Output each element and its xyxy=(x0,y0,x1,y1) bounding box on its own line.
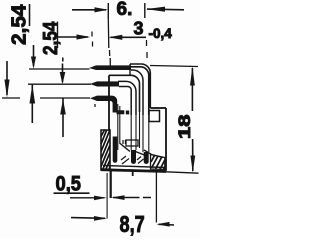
body top rear edge with rounded corner xyxy=(130,64,150,108)
dimension line for 2,54 #1 xyxy=(29,4,31,26)
body rear tower step xyxy=(129,64,131,75)
arrow down at x33.5 (to pin1 line) xyxy=(33,45,35,66)
right bottom hatched block xyxy=(151,155,165,170)
3 right arrow xyxy=(111,36,147,38)
body step at right xyxy=(150,107,166,109)
body front top edge xyxy=(109,75,140,112)
flange bottom thick strip xyxy=(101,170,166,172)
8,7 left arrow xyxy=(71,217,105,220)
thin extension left of leg xyxy=(106,173,108,219)
pin 1 solid bar with pointed tip xyxy=(89,65,131,70)
pin 3 solid bar with pointed tip xyxy=(90,96,110,101)
svg-text:2,54: 2,54 xyxy=(40,21,62,55)
front leg below flange (0,5 feature) xyxy=(110,169,112,198)
slope line to right hatched block xyxy=(144,150,163,158)
extension line y98 left segment xyxy=(2,97,20,99)
0,5 right arrow xyxy=(113,197,151,199)
arrow down at x7 (2,54 outer) xyxy=(6,61,8,95)
svg-text:3: 3 xyxy=(134,19,144,39)
6. left arrow xyxy=(72,9,106,11)
middle leg dark stub xyxy=(131,150,136,164)
pin 3 bend outline to front leg xyxy=(109,96,117,113)
pocket box in flange top xyxy=(126,140,138,146)
8,7 right arrow xyxy=(159,223,175,226)
extension continuation x145 down to body xyxy=(146,40,149,58)
extension line right x156.5 down xyxy=(155,173,157,223)
small notch box on step xyxy=(149,111,160,122)
18 dimension line upper with up arrow xyxy=(191,68,193,111)
hatch ticks under slope between legs xyxy=(121,156,144,164)
18 bottom extension line xyxy=(166,172,199,173)
svg-text:0,5: 0,5 xyxy=(56,173,82,196)
pin 2 bend outline to middle leg xyxy=(118,81,136,115)
svg-text:-0,4: -0,4 xyxy=(149,26,173,41)
body right face xyxy=(165,108,167,171)
body front face xyxy=(108,75,110,131)
svg-text:8,7: 8,7 xyxy=(120,211,145,237)
slope line between middle and back legs xyxy=(136,152,146,156)
svg-text:2,54: 2,54 xyxy=(9,4,31,45)
6. right extension tick xyxy=(144,3,146,18)
18 top extension line xyxy=(150,66,198,67)
middle leg stub below flange xyxy=(132,171,134,177)
dimension line for 2,54 #2 xyxy=(57,22,59,49)
back leg dark stub xyxy=(144,152,149,164)
extension line y84 from pin2 xyxy=(28,83,91,85)
pin 1 bend outline to back leg xyxy=(109,67,149,115)
svg-text:6.: 6. xyxy=(117,0,133,20)
extension line y98 right segment xyxy=(40,97,90,99)
arrow up at x63 (to pin3 line) with long head xyxy=(62,99,64,138)
0,5 left arrow xyxy=(70,197,105,199)
6. left extension tick xyxy=(107,3,109,19)
pin 2 solid bar with pointed tip xyxy=(90,81,119,86)
front leg dark stub xyxy=(113,137,118,163)
arrow down at x62.5 (to pin2 line) xyxy=(62,58,64,62)
extension continuation x108.5 down to body xyxy=(107,19,110,48)
0,5 underline xyxy=(54,192,90,194)
slope line between front and middle legs xyxy=(120,143,131,152)
flange left hatched wall xyxy=(101,130,110,170)
6. right arrow xyxy=(147,8,184,11)
svg-text:18: 18 xyxy=(176,115,194,140)
3 left arrow xyxy=(58,36,89,38)
extension line y69 from pin1 xyxy=(29,68,90,70)
18 dimension line lower with down arrow xyxy=(192,139,194,171)
arrow up at x33 (to pin2 line) with long head xyxy=(31,85,33,124)
dashed centerline at pin tips x92 xyxy=(92,32,95,108)
